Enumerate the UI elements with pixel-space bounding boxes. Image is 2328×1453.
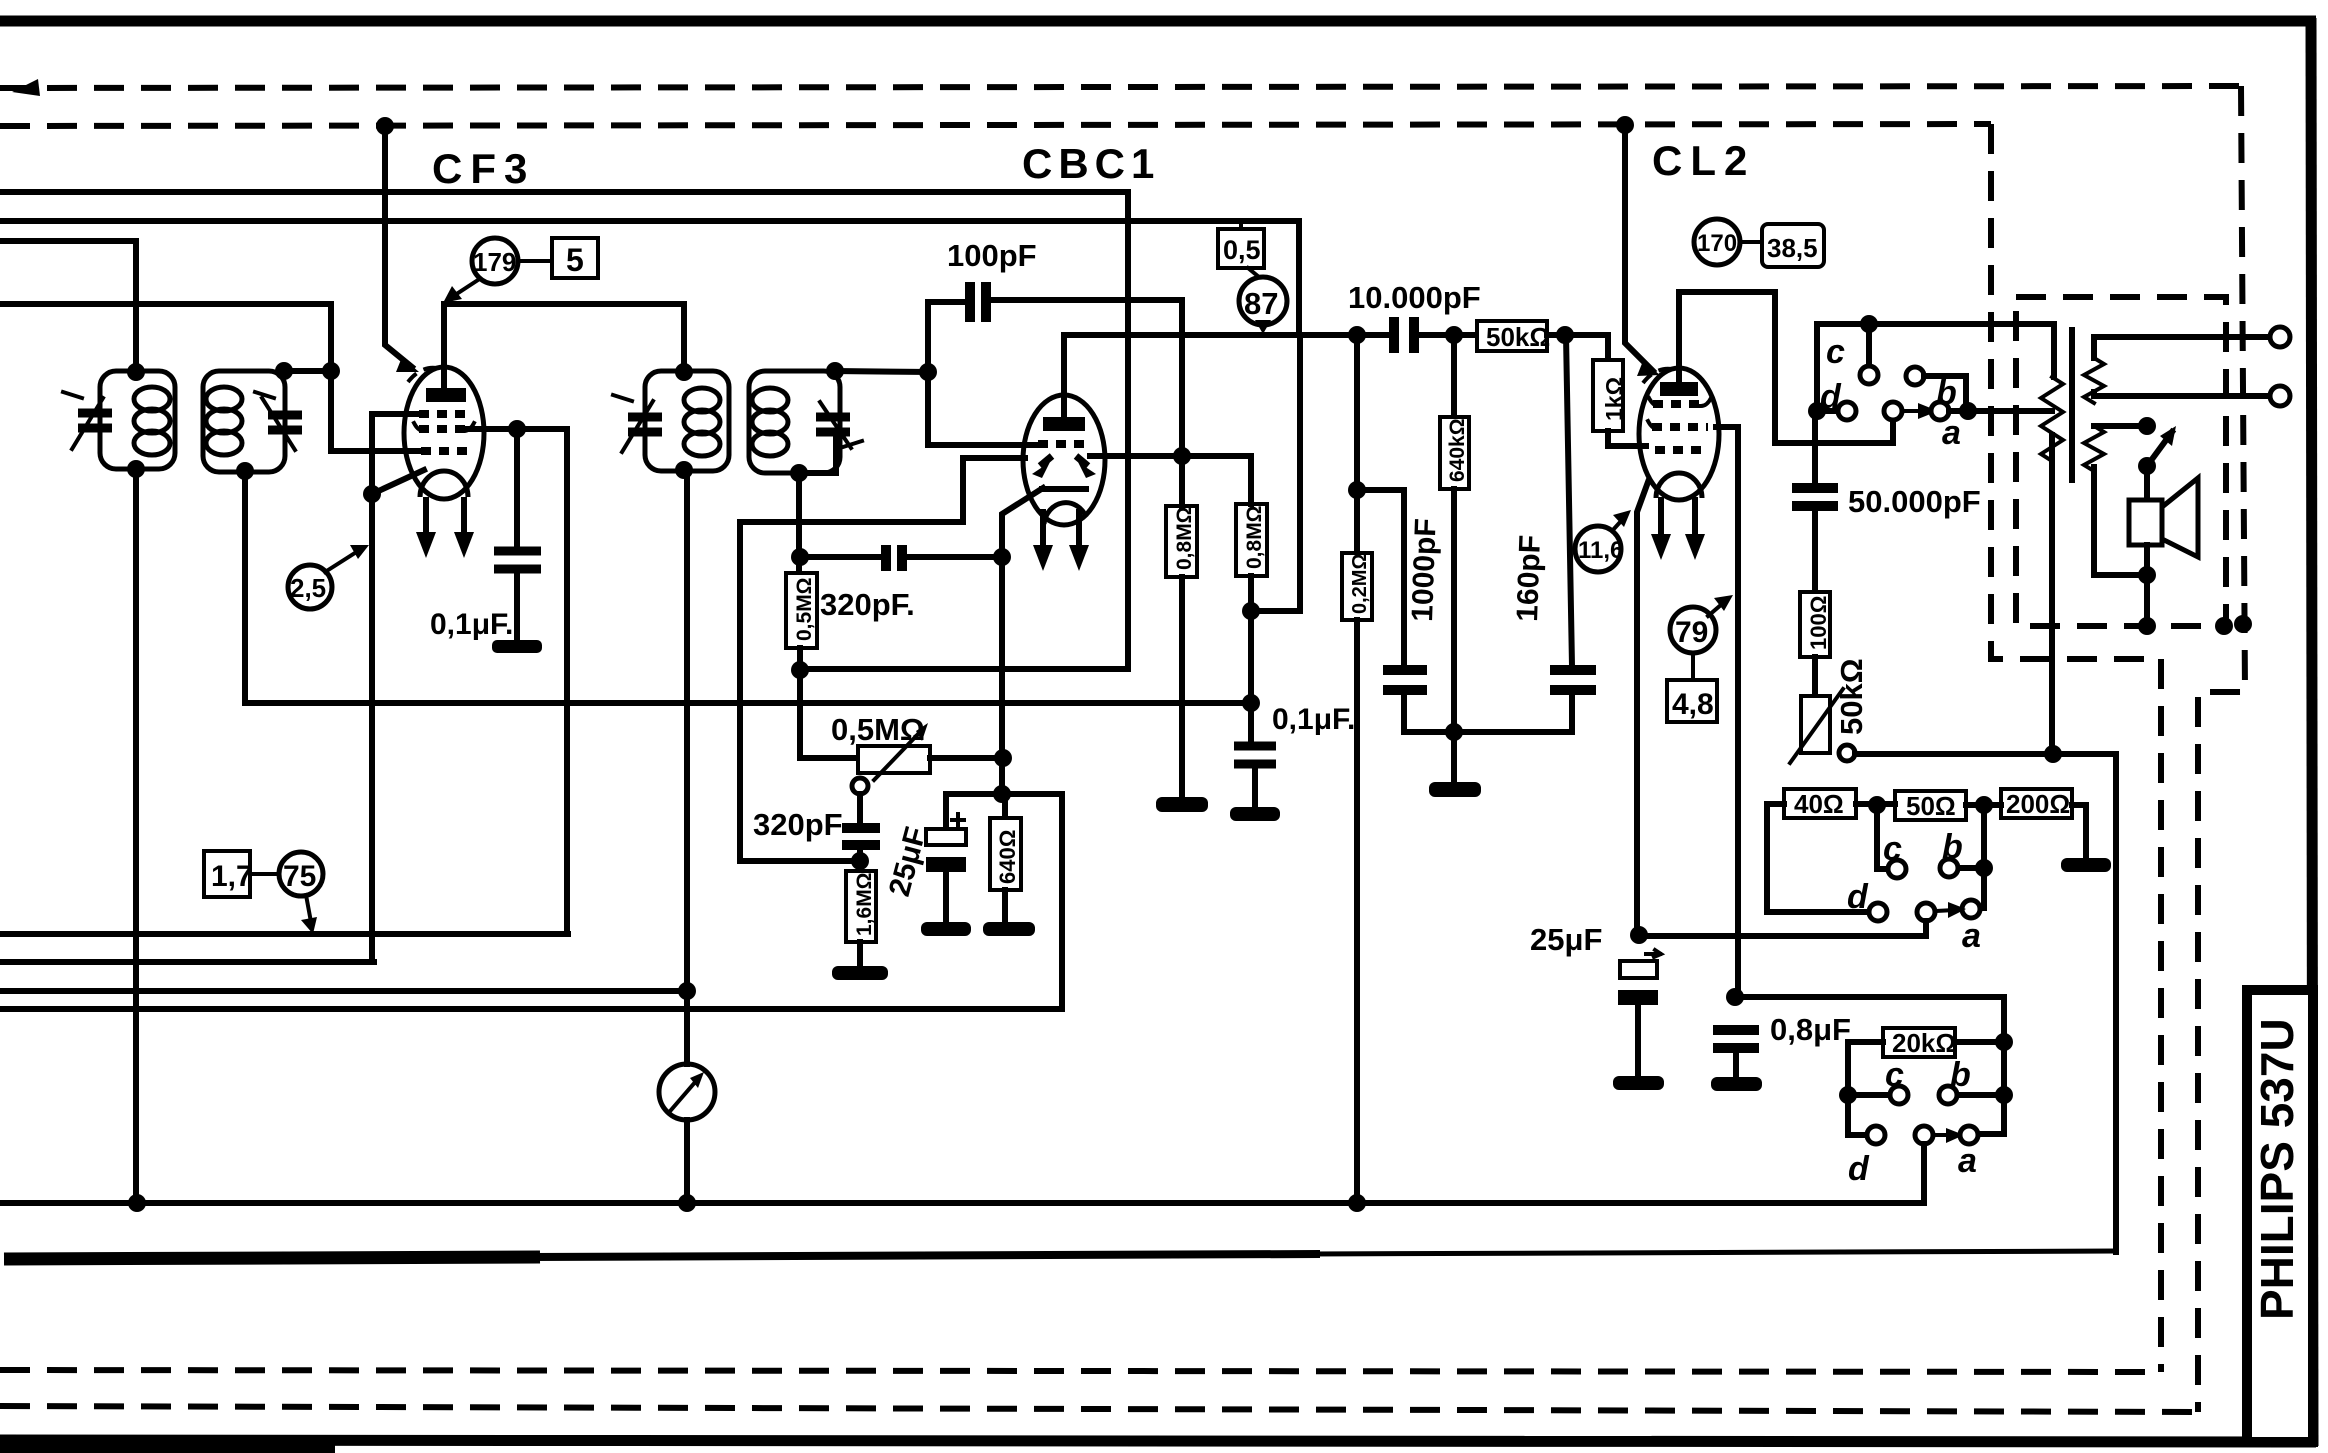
svg-text:0,1μF.: 0,1μF. <box>1272 703 1355 736</box>
annotation 170 circle <box>1694 219 1740 265</box>
wire: G1 to output transformer tap <box>1949 408 2052 414</box>
wire: bus b <box>0 959 374 965</box>
capacitor 160pF <box>1566 335 1572 666</box>
wire: CBC1 diode load wire <box>1090 453 1251 459</box>
capacitor 0.1uF (CF3 screen) <box>514 429 520 547</box>
wire: cathode junction verticals <box>999 557 1005 794</box>
svg-text:d: d <box>1848 1150 1870 1188</box>
dashed speaker enclosure box <box>2016 297 2226 626</box>
capacitor 0.1uF AF <box>1234 742 1276 751</box>
capacitor 25uF electrolytic CL2 <box>1646 950 1661 957</box>
svg-text:38,5: 38,5 <box>1767 233 1818 263</box>
wire: CF3 grid1 lead and cathode vertical <box>372 414 419 962</box>
resistor 1k grid stopper <box>1593 360 1623 431</box>
potentiometer 50k tone <box>1801 696 1830 753</box>
svg-text:20kΩ: 20kΩ <box>1892 1028 1956 1058</box>
annotation 4,8 box <box>1667 680 1717 722</box>
svg-text:0,5: 0,5 <box>1223 235 1261 265</box>
annotation 5 box <box>552 238 598 278</box>
wire: tone pot to return <box>1855 751 2116 757</box>
annotation 11,6 circle <box>1575 526 1621 572</box>
wire: AVC vertical from bus1 <box>800 192 1128 669</box>
wire: bus a <box>0 931 568 937</box>
wire: G1 feed to primary top <box>1869 324 2054 377</box>
wire: IF1 coil1 bottom long vertical <box>133 469 139 1203</box>
svg-text:d: d <box>1847 878 1869 916</box>
svg-text:2,5: 2,5 <box>290 573 326 603</box>
CBC1 heater arrows <box>1040 512 1046 548</box>
dashed shield line top inner <box>0 124 1991 126</box>
annotation 79 circle <box>1670 607 1716 653</box>
svg-text:0,5MΩ: 0,5MΩ <box>793 577 816 641</box>
IF transformer 3 coil/cap box <box>645 371 729 471</box>
wire: screen bypass vertical to bus a <box>564 429 570 934</box>
dashed shield line top outer <box>0 86 2241 88</box>
coil L1 <box>134 387 170 411</box>
resistor 50k stopper <box>1477 321 1547 351</box>
svg-text:640kΩ: 640kΩ <box>1446 418 1469 482</box>
transformer secondary lower <box>2084 426 2104 471</box>
resistor 640 ohm cathode <box>1002 794 1008 818</box>
svg-text:a: a <box>1942 414 1961 452</box>
svg-text:320pF: 320pF <box>753 807 843 842</box>
annotation 0,5 box <box>1218 229 1264 268</box>
resistor 1.6M <box>846 871 876 942</box>
svg-text:CBC1: CBC1 <box>1022 140 1160 187</box>
capacitor 320pF (cathode) <box>857 794 863 824</box>
wire: CBC1 cathode diagonal chain <box>1002 488 1043 794</box>
resistor 50 ohm <box>1895 791 1966 820</box>
wire: IF3b cap bottom lead <box>799 434 836 473</box>
annotation 179 circle <box>472 238 518 284</box>
ground 1.6M <box>832 966 888 980</box>
svg-text:100Ω: 100Ω <box>1806 596 1831 650</box>
wire: bus c to meter <box>0 988 687 994</box>
svg-text:50.000pF: 50.000pF <box>1848 484 1981 519</box>
capacitor 0.8uF <box>1713 1025 1759 1035</box>
PHILIPS 537U title box <box>2247 990 2313 1442</box>
resistor 40 ohm <box>1784 789 1856 818</box>
svg-text:75: 75 <box>283 860 316 893</box>
wire: 640 ohm top to bus d corner <box>1002 791 1062 797</box>
svg-text:179: 179 <box>473 247 516 277</box>
output transformer primary <box>2041 377 2063 461</box>
resistor 20k <box>1883 1028 1955 1057</box>
dashed outer bottom <box>0 1406 2198 1412</box>
resistor 0.2M <box>1342 553 1372 620</box>
wire: CF3 anode to IF3 <box>444 304 684 388</box>
svg-text:87: 87 <box>1244 286 1278 321</box>
wire: pot right lead <box>930 755 1003 761</box>
svg-text:CF3: CF3 <box>432 145 535 192</box>
wire: IF3 coil2 bottom chain <box>796 473 802 573</box>
wire: 100pF right lead to diode <box>990 300 1182 456</box>
svg-text:c: c <box>1883 830 1902 868</box>
CL2 anode <box>1660 382 1698 396</box>
annotation 87 circle <box>1239 277 1287 325</box>
svg-text:0,8μF: 0,8μF <box>1770 1012 1851 1047</box>
svg-text:a: a <box>1962 917 1981 955</box>
transformer core <box>2069 330 2075 480</box>
wire: cap commons to ground <box>1404 729 1572 735</box>
svg-text:c: c <box>1826 333 1845 371</box>
svg-text:10.000pF: 10.000pF <box>1348 280 1481 315</box>
svg-text:0,5MΩ: 0,5MΩ <box>831 712 925 747</box>
capacitor 10.000pF coupling <box>1389 317 1399 353</box>
svg-text:170: 170 <box>1697 230 1737 257</box>
CBC1 anode <box>1043 417 1085 431</box>
tube CL2 envelope <box>1639 368 1719 500</box>
coil L4 <box>752 388 788 412</box>
wire: CL2 cathode to bias network <box>1637 482 1648 935</box>
IF transformer 1 coil2 box <box>203 371 285 472</box>
trimmer capacitor IF1b <box>268 411 302 420</box>
wire: CL2 screen lead down <box>1716 427 1738 997</box>
svg-text:b: b <box>1950 1056 1971 1094</box>
CF3 heater arrows <box>423 500 429 538</box>
switch G1 pole <box>1884 402 1902 420</box>
meter <box>659 1064 715 1120</box>
transformer secondary upper <box>2084 358 2104 403</box>
wire: CBC1 anode lead <box>1064 335 1390 417</box>
resistor 640k <box>1451 335 1457 417</box>
resistor 0.8M diode load 1 <box>1166 506 1197 577</box>
svg-text:50kΩ: 50kΩ <box>1486 322 1550 352</box>
frame: bottom-left stub line <box>0 1450 335 1451</box>
coil L3 <box>684 388 720 412</box>
wires: bias resistor chain <box>1767 804 1869 912</box>
speaker <box>2144 466 2150 500</box>
svg-text:0,2MΩ: 0,2MΩ <box>1349 554 1371 615</box>
CL2 cathode dome <box>1656 473 1702 498</box>
CBC1 diode plates <box>1040 456 1052 466</box>
annotation 1,7 box <box>204 851 250 897</box>
CL2 grid rows <box>1653 400 1705 408</box>
svg-text:b: b <box>1936 374 1957 412</box>
resistor 0.8M grid leak 2 <box>1236 504 1267 576</box>
wire: CL2 grid cap lead <box>1625 126 1653 371</box>
wire: screen node to 20k <box>1735 997 2004 1134</box>
coil L2 <box>206 387 242 411</box>
wire: IF1 coil2 top link <box>284 368 331 374</box>
svg-text:50Ω: 50Ω <box>1906 791 1956 821</box>
svg-text:PHILIPS 537U: PHILIPS 537U <box>2251 1018 2303 1320</box>
switch G3 contacts <box>1848 1092 1890 1098</box>
frame: right thick border <box>2311 18 2313 1446</box>
annotation 38,5 box <box>1762 224 1824 267</box>
svg-text:5: 5 <box>566 242 584 278</box>
svg-text:0,8MΩ: 0,8MΩ <box>1173 506 1196 570</box>
wire: 0.2M feed <box>1354 335 1360 553</box>
CF3 grid rows <box>419 410 469 418</box>
wire: CBC1 left diode return <box>740 458 1025 861</box>
wire: heavy return line <box>4 1257 540 1259</box>
wire: CF3 screen lead <box>468 426 567 432</box>
svg-text:640Ω: 640Ω <box>995 830 1020 884</box>
wire: IF3b bottom to 320pF wire <box>800 554 883 560</box>
arrowhead on outer dashed line <box>12 79 40 96</box>
trimmer capacitor IF3a <box>628 413 662 422</box>
wire: bus d to CBC1 cathode network <box>0 794 1062 1009</box>
svg-text:320pF.: 320pF. <box>820 587 915 622</box>
svg-text:40Ω: 40Ω <box>1794 789 1844 819</box>
svg-text:a: a <box>1958 1142 1977 1180</box>
wire: IF3 coil2 top link <box>835 371 928 372</box>
wire: stub to CF3 grid3 <box>0 304 421 451</box>
svg-text:4,8: 4,8 <box>1672 688 1714 721</box>
dashed outer right vertical <box>2198 86 2245 1412</box>
wire: 0.5M bottom to pot <box>800 648 858 758</box>
resistor 0.5M AVC <box>786 573 817 648</box>
wire: CF3 cathode diagonal <box>372 470 424 494</box>
CBC1 grid row <box>1038 440 1089 448</box>
svg-text:160pF: 160pF <box>1511 534 1547 622</box>
switch G2 contacts <box>1877 805 1888 869</box>
wire: bus line 2 <box>0 221 1299 335</box>
wire: ground bus bottom <box>3 1200 1924 1206</box>
svg-text:CL2: CL2 <box>1652 137 1755 184</box>
trimmer capacitor IF3b <box>816 413 850 422</box>
svg-text:1kΩ: 1kΩ <box>1601 377 1627 421</box>
frame: top thick border <box>0 16 2316 27</box>
capacitor 320pF (diode coupling) <box>881 545 891 571</box>
wire: cathode to G2 pole <box>1639 921 1926 936</box>
svg-text:1000pF: 1000pF <box>1406 518 1443 622</box>
svg-text:100pF: 100pF <box>947 238 1037 273</box>
CL2 heater arrows <box>1658 500 1664 540</box>
wire: CF3 grid-cap lead from dashed rail <box>385 126 412 367</box>
capacitor 100pF <box>965 282 975 322</box>
svg-text:79: 79 <box>1675 616 1708 649</box>
dashed inner bottom <box>0 1370 2161 1372</box>
tube CBC1 envelope <box>1023 395 1105 525</box>
wire: antenna stub to IF1 <box>0 241 136 372</box>
wire: 100pF left lead <box>928 302 1036 445</box>
svg-text:25μF: 25μF <box>1530 922 1602 957</box>
svg-text:11,6: 11,6 <box>1578 537 1623 564</box>
wire: CL2 anode to switch pole <box>1679 292 1893 443</box>
capacitor 1000pF <box>1357 490 1404 666</box>
annotation 2,5 circle <box>288 565 332 609</box>
wire: grid leak to coupling node <box>1251 335 1300 611</box>
resistor 100 ohm <box>1800 592 1830 657</box>
wire: IF1 coil2 bottom to bus y703 <box>245 471 1252 703</box>
svg-text:1,6MΩ: 1,6MΩ <box>853 872 876 936</box>
svg-text:200Ω: 200Ω <box>2006 789 2070 819</box>
IF transformer 3 coil2 box <box>749 371 840 473</box>
svg-text:0,1μF.: 0,1μF. <box>430 608 513 641</box>
svg-text:b: b <box>1942 828 1963 866</box>
CBC1 cathode line and dome <box>1042 486 1086 492</box>
CF3 cathode dome <box>420 471 468 497</box>
annotation 75 circle <box>279 852 323 896</box>
output terminal 1 <box>2270 327 2290 347</box>
speaker switch lever <box>2147 432 2172 466</box>
capacitor 25uF electrolytic CBC1 <box>946 794 1002 829</box>
potentiometer 0.5M volume <box>858 746 930 773</box>
tube CF3 envelope <box>404 367 484 499</box>
IF transformer 1 coil/cap box <box>100 371 175 469</box>
frame: bottom thick border <box>0 1440 2316 1442</box>
resistor 200 ohm <box>2001 789 2072 818</box>
output terminal 2 <box>2270 386 2290 406</box>
trimmer capacitor IF1a <box>78 409 112 418</box>
wire: HT bus line 1 <box>0 189 1128 195</box>
capacitor 50.000pF <box>1812 420 1818 484</box>
switch G1 contacts c d b <box>1817 324 1869 411</box>
CF3 anode <box>426 388 466 402</box>
svg-text:c: c <box>1885 1056 1904 1094</box>
svg-text:0,8MΩ: 0,8MΩ <box>1243 505 1266 569</box>
dashed inner right vertical <box>1991 124 2161 1372</box>
svg-text:50kΩ: 50kΩ <box>1834 658 1869 735</box>
pot wiper terminal <box>852 778 868 794</box>
svg-text:1,7: 1,7 <box>211 860 253 893</box>
wire: G3 pole to ground bus <box>1921 1144 1927 1203</box>
